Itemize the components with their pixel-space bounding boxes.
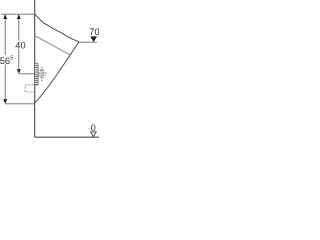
top extension line (rim level) bbox=[1, 13, 35, 15]
arrow down 56.5 bbox=[3, 99, 7, 104]
supply centreline cross bbox=[38, 67, 48, 82]
arrow down 40 bbox=[17, 69, 21, 74]
supply box (dashed) bbox=[40, 70, 44, 78]
urinal outer front edge bbox=[35, 42, 79, 103]
svg-text:40: 40 bbox=[15, 40, 25, 50]
arrow up 56.5 bbox=[3, 14, 7, 19]
concealed box in wall (dashed, left of wall) bbox=[25, 85, 35, 92]
inner bowl line bbox=[35, 36, 70, 56]
svg-text:5: 5 bbox=[10, 55, 13, 61]
hatched connector block on wall bbox=[35, 64, 38, 86]
hidden pipe line in wall (dashed) bbox=[36, 78, 38, 87]
svg-text:70: 70 bbox=[89, 27, 99, 37]
dimension line 56.5: vertical bbox=[4, 15, 6, 55]
extension line at supply cross (40 level) bbox=[19, 73, 35, 75]
arrow up 40 bbox=[17, 14, 21, 19]
urinal top rim edge bbox=[35, 14, 79, 42]
datum triangle 0 (open) bbox=[91, 132, 97, 137]
arrow down 70 (filled) bbox=[90, 36, 97, 42]
wall line bbox=[34, 0, 36, 137]
extension line at outlet (56.5 level) bbox=[5, 103, 35, 105]
dimension line 40: vertical bbox=[18, 15, 20, 41]
floor line bbox=[35, 136, 99, 138]
extension line rim front (70 level) bbox=[79, 41, 97, 43]
svg-text:56: 56 bbox=[0, 56, 10, 66]
